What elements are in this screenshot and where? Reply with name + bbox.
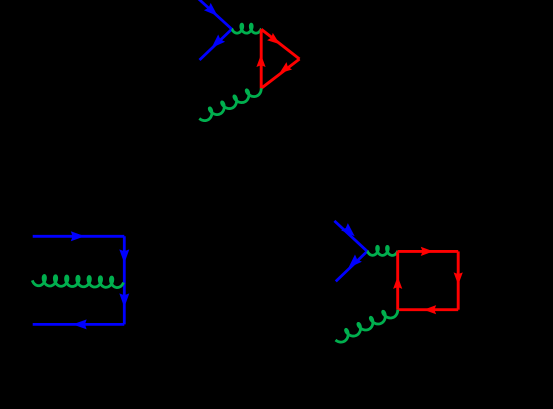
incoming quark line (top diagram, upper)	[199, 0, 232, 29]
gluon (radiated, triangle bottom-left corner down-left)	[199, 88, 261, 120]
quark-loop box right side	[454, 251, 463, 309]
gluon (short, vertex to quark box)	[367, 246, 398, 255]
quark-loop box left side	[393, 251, 402, 309]
quark-loop triangle bottom side	[261, 59, 299, 88]
incoming antiquark line (box diagram, lower)	[336, 251, 367, 281]
quark-loop triangle top side	[261, 29, 299, 59]
quark line (left diagram, top, rightward)	[33, 231, 125, 241]
quark-loop box top side	[398, 247, 459, 256]
gluon (left diagram, horizontal)	[32, 275, 123, 287]
gluon (radiated, box bottom-left corner down-left)	[336, 310, 398, 342]
quark-loop box bottom side	[398, 305, 459, 314]
quark propagator (left diagram, vertical, two down arrows)	[119, 236, 129, 324]
quark-loop triangle left side	[256, 29, 265, 88]
incoming quark line (box diagram, upper)	[334, 221, 367, 251]
gluon (short, vertex to quark triangle)	[232, 24, 261, 33]
antiquark line (left diagram, bottom, leftward)	[33, 319, 125, 329]
incoming antiquark line (top diagram, lower)	[200, 29, 232, 60]
